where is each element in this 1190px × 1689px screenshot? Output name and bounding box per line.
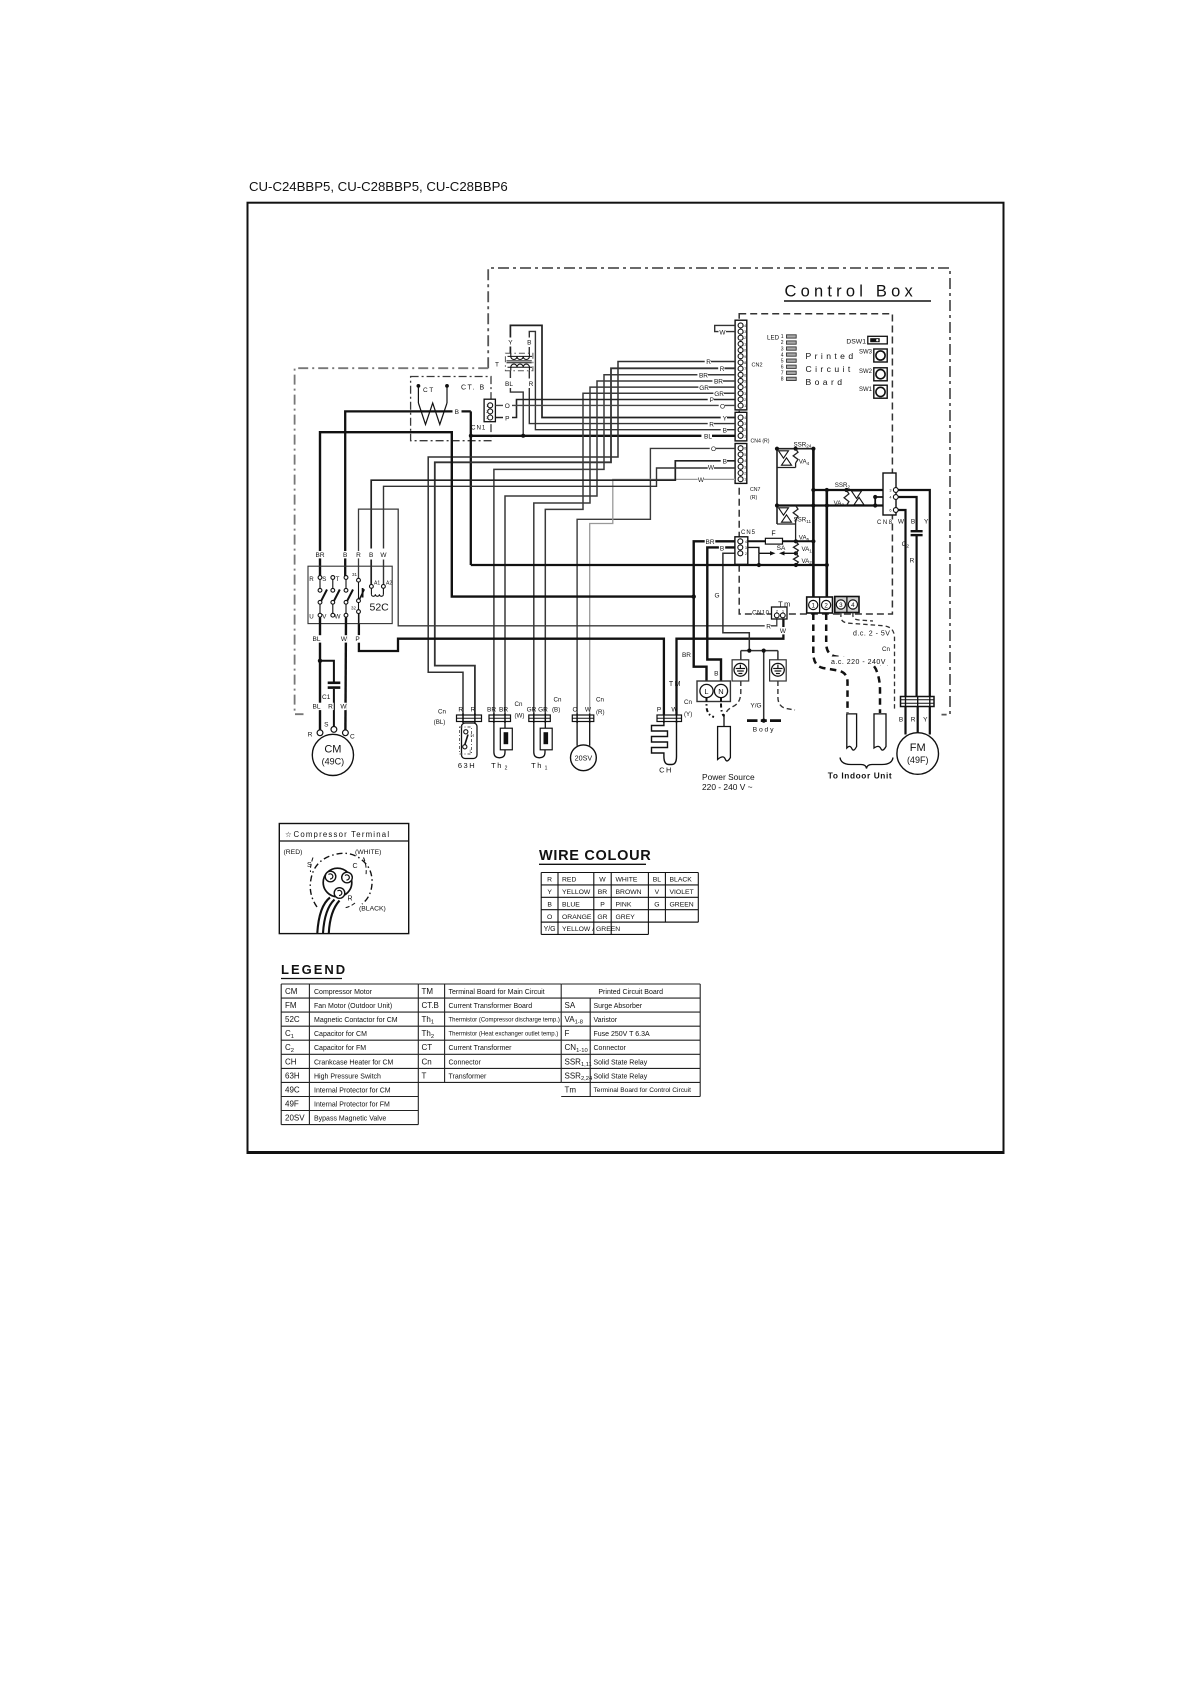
svg-text:B: B — [723, 458, 727, 465]
svg-text:P: P — [505, 415, 509, 422]
wire P from 52C aux bottom to CH — [359, 624, 664, 715]
svg-text:2: 2 — [781, 340, 784, 346]
wire G CN5 pin2 to earth — [723, 553, 778, 719]
svg-text:TM: TM — [422, 987, 434, 996]
svg-text:32: 32 — [351, 606, 357, 611]
svg-text:CT: CT — [422, 1043, 433, 1052]
svg-text:Cn: Cn — [515, 701, 523, 708]
varistor VA2 — [794, 553, 799, 565]
svg-text:8: 8 — [781, 377, 784, 383]
Printed Circuit Board label — [806, 351, 857, 387]
connector Cn(B) bar of Th1 — [529, 715, 551, 722]
svg-text:W: W — [898, 519, 905, 526]
svg-text:Cn: Cn — [438, 709, 446, 716]
indoor cable 1 — [847, 714, 857, 750]
svg-text:To Indoor Unit: To Indoor Unit — [828, 771, 892, 781]
wire SSR11 bottom — [777, 523, 796, 525]
svg-text:BL: BL — [704, 434, 712, 441]
current transformer CT — [417, 384, 449, 425]
svg-text:L: L — [704, 687, 708, 696]
svg-text:S: S — [324, 722, 329, 729]
svg-text:Transformer: Transformer — [449, 1073, 488, 1080]
svg-text:Printed Circuit Board: Printed Circuit Board — [598, 989, 663, 996]
svg-text:1: 1 — [744, 478, 746, 482]
svg-text:Y: Y — [923, 717, 928, 724]
wire B CN5 pin3 to TM N — [707, 547, 735, 684]
svg-text:BL: BL — [313, 704, 321, 711]
wire BL 52C U to CM R — [319, 617, 321, 730]
svg-text:Y: Y — [924, 519, 929, 526]
svg-text:6: 6 — [889, 509, 891, 513]
varistor VA1 — [794, 541, 799, 553]
connector CN10 — [752, 607, 787, 619]
svg-text:V: V — [655, 889, 660, 896]
svg-text:O: O — [505, 403, 510, 410]
svg-text:R: R — [720, 366, 725, 373]
svg-text:Terminal Board for Control Cir: Terminal Board for Control Circuit — [594, 1087, 692, 1094]
wire SSR24 top — [777, 448, 813, 450]
svg-text:Crankcase Heater for CM: Crankcase Heater for CM — [314, 1059, 394, 1066]
svg-text:YELLOW / GREEN: YELLOW / GREEN — [562, 926, 620, 933]
outer border frame — [248, 203, 1004, 1153]
svg-text:C: C — [350, 734, 355, 741]
svg-text:Th: Th — [491, 761, 503, 770]
Control Box dashed boundary — [488, 268, 950, 715]
varistor VA5 — [793, 506, 798, 542]
terminal board TM — [669, 681, 731, 702]
high pressure switch 63H — [458, 723, 477, 770]
svg-text:1: 1 — [744, 404, 746, 408]
svg-text:CN5: CN5 — [741, 530, 756, 536]
svg-text:11: 11 — [742, 342, 746, 346]
svg-text:CT.B: CT.B — [422, 1001, 439, 1010]
svg-text:3: 3 — [486, 416, 488, 420]
connector Cn(W) of FM — [879, 646, 934, 707]
svg-text:WIRE COLOUR: WIRE COLOUR — [539, 848, 651, 864]
surge absorber SA — [748, 545, 796, 556]
magnetic contactor 52C — [308, 566, 392, 623]
svg-text:W: W — [341, 636, 348, 643]
svg-text:O: O — [711, 446, 716, 453]
LED indicator block — [767, 334, 796, 382]
wire SSR24 bottom — [777, 467, 796, 469]
svg-text:Varistor: Varistor — [594, 1017, 618, 1024]
connector Cn(R) bar of 20SV — [572, 715, 594, 722]
52C pole R-U — [309, 576, 327, 621]
svg-text:(WHITE): (WHITE) — [355, 849, 381, 856]
svg-text:6: 6 — [781, 364, 784, 370]
wire GR Th1-right to CN2 pin3 — [545, 393, 735, 715]
svg-text:PINK: PINK — [616, 901, 632, 908]
TM to plug dash-dot wires — [707, 698, 715, 717]
wire SSR2/CN8 pin3 row — [813, 489, 893, 491]
svg-text:6: 6 — [744, 373, 746, 377]
svg-text:Solid State Relay: Solid State Relay — [594, 1059, 648, 1066]
svg-text:W: W — [780, 628, 787, 635]
svg-text:Cn: Cn — [422, 1057, 432, 1066]
svg-text:P: P — [600, 901, 605, 908]
svg-text:P: P — [355, 636, 359, 643]
earth1 to plug dashed wire — [726, 681, 741, 713]
svg-text:20SV: 20SV — [575, 754, 593, 763]
svg-text:(49C): (49C) — [322, 757, 345, 767]
svg-text:R: R — [910, 558, 915, 565]
svg-text:Power Source: Power Source — [702, 772, 755, 782]
power source cable — [702, 714, 755, 792]
push switch SW3 — [859, 349, 887, 362]
svg-text:4: 4 — [745, 540, 747, 544]
svg-text:☆: ☆ — [285, 830, 292, 839]
wire W CN7 pin3 to 52C coil A2 — [384, 468, 736, 585]
varistor VA4 — [793, 449, 798, 468]
svg-text:Cn: Cn — [596, 697, 604, 704]
svg-text:Cn: Cn — [684, 699, 692, 706]
svg-text:CN2: CN2 — [752, 363, 763, 369]
svg-text:N: N — [718, 687, 723, 696]
svg-text:R: R — [547, 877, 552, 884]
svg-text:W: W — [698, 477, 705, 484]
svg-text:Solid State Relay: Solid State Relay — [594, 1073, 648, 1080]
svg-text:BR: BR — [598, 889, 608, 896]
svg-text:49C: 49C — [285, 1085, 300, 1094]
svg-text:2: 2 — [745, 552, 747, 556]
CT.B current transformer board dashed box — [411, 377, 491, 441]
WIRE COLOUR table — [541, 873, 698, 935]
svg-text:CT: CT — [423, 387, 435, 394]
svg-text:C: C — [353, 863, 358, 870]
svg-text:(RED): (RED) — [284, 849, 303, 856]
svg-text:Body: Body — [753, 727, 776, 734]
svg-text:BR: BR — [499, 707, 508, 714]
svg-text:CM: CM — [324, 744, 341, 756]
connector Cn(W) bar of Th2 — [489, 715, 511, 722]
svg-text:R: R — [308, 732, 313, 739]
svg-text:Internal Protector for FM: Internal Protector for FM — [314, 1102, 390, 1109]
wire O from CN1 pin1 to CN2 pin1 — [495, 404, 735, 406]
wire B from 52C T-pole through CT — [345, 411, 471, 577]
svg-text:CU-C24BBP5, CU-C28BBP5, CU-C28: CU-C24BBP5, CU-C28BBP5, CU-C28BBP6 — [249, 179, 508, 194]
CN2 pin approach labels — [705, 358, 711, 365]
svg-text:W: W — [380, 552, 387, 559]
svg-text:Board: Board — [806, 377, 846, 387]
bypass magnetic valve 20SV — [571, 722, 597, 771]
svg-text:W: W — [599, 877, 606, 884]
svg-text:B: B — [455, 409, 459, 416]
svg-text:(49F): (49F) — [907, 755, 929, 765]
svg-text:1: 1 — [744, 434, 746, 438]
connector CN8 — [877, 473, 898, 526]
svg-text:20SV: 20SV — [285, 1114, 305, 1123]
svg-text:2: 2 — [744, 472, 746, 476]
svg-text:W: W — [671, 707, 678, 714]
earth symbol 2 — [770, 660, 787, 681]
svg-text:U: U — [309, 614, 313, 621]
wire BR Th2-right to CN2 pin5 — [505, 381, 735, 715]
svg-text:C1: C1 — [322, 694, 331, 701]
svg-text:(W): (W) — [515, 713, 525, 720]
connector Cn(BL) bar of 63H — [457, 715, 482, 722]
svg-text:LEGEND: LEGEND — [281, 962, 347, 977]
body ground — [747, 719, 781, 734]
capacitor C2 — [902, 531, 923, 549]
svg-text:CN1: CN1 — [471, 425, 486, 432]
connector CN7(R) — [735, 444, 760, 502]
svg-text:O: O — [547, 914, 552, 921]
svg-text:7: 7 — [781, 371, 784, 377]
svg-text:ORANGE: ORANGE — [562, 914, 592, 921]
varistor VA8 — [844, 490, 849, 506]
svg-text:R: R — [471, 707, 476, 714]
connector Cn(Y) bar of CH — [657, 715, 682, 722]
svg-text:CN10: CN10 — [752, 611, 770, 617]
svg-text:YELLOW: YELLOW — [562, 889, 591, 896]
bus N (to Tm2) — [825, 490, 828, 597]
svg-text:4: 4 — [744, 386, 746, 390]
push switch SW2 — [859, 368, 887, 381]
svg-text:S: S — [322, 576, 326, 583]
svg-text:4: 4 — [744, 416, 746, 420]
DIP switch DSW1 — [846, 336, 887, 345]
svg-text:W: W — [340, 704, 347, 711]
svg-text:R: R — [709, 421, 714, 428]
svg-text:3: 3 — [744, 465, 746, 469]
svg-text:RED: RED — [562, 877, 576, 884]
svg-text:4: 4 — [851, 602, 855, 609]
wire BL: CT output down to CN4 pin1 and N-bus — [470, 411, 472, 565]
svg-text:BR: BR — [682, 652, 691, 659]
svg-text:GREEN: GREEN — [670, 901, 694, 908]
d.c. dashed wire from Tm3 — [841, 613, 895, 711]
svg-text:B: B — [714, 671, 718, 678]
svg-text:R: R — [458, 707, 463, 714]
fuse F — [748, 531, 814, 545]
svg-text:Y: Y — [508, 340, 513, 347]
svg-text:W: W — [708, 465, 715, 472]
wire B CN7 pin4 to 52C coil A1 — [371, 461, 735, 585]
52C auxiliary contact 31/32 — [351, 572, 364, 624]
svg-text:GR: GR — [538, 707, 548, 714]
svg-text:5: 5 — [744, 453, 746, 457]
svg-text:SA: SA — [565, 1001, 576, 1010]
CN7 pin approach labels — [710, 445, 716, 452]
svg-text:Control Box: Control Box — [785, 283, 917, 301]
svg-text:52C: 52C — [370, 602, 390, 614]
svg-text:CM: CM — [285, 987, 298, 996]
wire BR CN5 pin4 to TM L — [694, 541, 735, 685]
svg-text:T: T — [336, 576, 340, 583]
svg-text:CT. B: CT. B — [461, 385, 486, 392]
wire W stub at CN2 pin14 — [715, 325, 735, 331]
compressor terminal detail box — [279, 824, 408, 934]
svg-text:CH: CH — [659, 766, 673, 775]
svg-text:2: 2 — [486, 410, 488, 414]
solid state relay SSR11 — [779, 508, 812, 524]
thermistor Th2 — [491, 722, 512, 772]
svg-text:Cn: Cn — [554, 697, 562, 704]
svg-text:SW3: SW3 — [859, 350, 873, 356]
svg-text:1: 1 — [811, 602, 815, 609]
svg-text:LED: LED — [767, 335, 780, 342]
svg-text:G: G — [714, 593, 719, 600]
svg-text:(BL): (BL) — [434, 719, 446, 726]
svg-text:SA: SA — [777, 545, 786, 552]
wire O 20SV-right to CN7 pin6 — [577, 448, 735, 715]
compressor terminal drawing — [284, 849, 386, 933]
svg-text:O: O — [572, 707, 577, 714]
a.c. dashed wire from Tm1 — [813, 614, 847, 714]
svg-text:Connector: Connector — [594, 1045, 627, 1052]
svg-text:Internal Protector for CM: Internal Protector for CM — [314, 1087, 391, 1094]
connector CN1 — [471, 399, 495, 431]
wire Y CN8 pin3 to FM — [898, 490, 930, 697]
svg-text:GR: GR — [699, 385, 709, 392]
svg-text:B: B — [720, 546, 724, 553]
svg-text:B: B — [547, 901, 552, 908]
svg-text:49F: 49F — [285, 1100, 299, 1109]
svg-text:BL: BL — [653, 877, 662, 884]
svg-text:A2: A2 — [386, 581, 392, 587]
svg-text:R: R — [529, 381, 534, 388]
svg-text:BR: BR — [487, 707, 496, 714]
solid state relay SSR2 — [835, 482, 864, 505]
svg-text:BL: BL — [313, 636, 321, 643]
printed circuit board dashed outline — [739, 314, 892, 614]
svg-text:7: 7 — [744, 367, 746, 371]
indoor cable 2 — [874, 714, 886, 750]
wire GR Th1-left to CN2 pin4 — [534, 387, 735, 715]
svg-text:Y/G: Y/G — [750, 703, 761, 710]
svg-text:Connector: Connector — [449, 1059, 482, 1066]
svg-text:BR: BR — [699, 372, 708, 379]
earth2 dashed wire — [778, 681, 795, 710]
a.c. label — [830, 657, 892, 666]
transformer primary wire B to CN4 pin2 — [529, 331, 735, 429]
svg-text:6: 6 — [744, 447, 746, 451]
svg-text:GREY: GREY — [616, 914, 636, 921]
svg-text:d.c. 2 - 5V: d.c. 2 - 5V — [853, 631, 890, 638]
52C pole S-V — [322, 576, 340, 621]
wire P from CN1 pin3 to CN2 pin2 — [495, 400, 735, 418]
svg-text:Thermistor (Heat exchanger out: Thermistor (Heat exchanger outlet temp.) — [449, 1032, 559, 1038]
svg-text:14: 14 — [742, 324, 746, 328]
svg-text:High Pressure Switch: High Pressure Switch — [314, 1073, 381, 1080]
svg-text:Y/G: Y/G — [544, 926, 556, 933]
svg-text:CH: CH — [285, 1057, 297, 1066]
connector CN4(R) — [735, 412, 770, 444]
push switch SW1 — [859, 385, 887, 398]
svg-text:FM: FM — [910, 742, 926, 754]
transformer secondary wire BL — [510, 371, 523, 436]
svg-text:GR: GR — [527, 707, 537, 714]
wire labels below 52C — [312, 635, 323, 642]
wire labels at CM — [311, 703, 322, 710]
wire SSR11 top / CN8 pin6 row — [777, 504, 893, 506]
svg-text:BR: BR — [705, 539, 714, 546]
svg-text:Terminal Board for Main Circui: Terminal Board for Main Circuit — [449, 989, 545, 996]
wire W CN8 pin6 to FM — [898, 510, 905, 697]
svg-text:O: O — [720, 403, 725, 410]
svg-text:2: 2 — [824, 602, 828, 609]
wire R 63H-right to CN2 pin8 — [428, 362, 735, 716]
svg-text:WHITE: WHITE — [616, 877, 638, 884]
svg-text:Circuit: Circuit — [806, 364, 854, 374]
svg-text:R: R — [356, 552, 361, 559]
svg-text:R: R — [309, 576, 314, 583]
svg-text:3: 3 — [744, 422, 746, 426]
crankcase heater CH — [652, 722, 677, 775]
svg-text:220 - 240 V ~: 220 - 240 V ~ — [702, 782, 753, 792]
N-bus wire from CT/BL vertical to bus2 — [471, 564, 827, 566]
wire W 52C W-pole to CM C — [344, 617, 347, 730]
svg-text:R: R — [328, 704, 333, 711]
wire B CN8 pin4 to FM via C2 — [898, 497, 916, 697]
svg-text:VIOLET: VIOLET — [670, 889, 694, 896]
svg-text:Surge Absorber: Surge Absorber — [594, 1003, 643, 1010]
svg-text:3: 3 — [889, 489, 891, 493]
svg-text:Capacitor for CM: Capacitor for CM — [314, 1031, 367, 1038]
svg-text:(B): (B) — [552, 707, 560, 714]
CM motor terminals R S C — [308, 722, 355, 741]
wire SSR left feeder — [776, 449, 778, 524]
earth symbol 1 — [732, 660, 749, 681]
wires Cn(W) to FM motor — [906, 707, 930, 735]
svg-text:R: R — [348, 896, 353, 903]
svg-text:Magnetic Contactor for CM: Magnetic Contactor for CM — [314, 1017, 398, 1024]
svg-text:Thermistor (Compressor dischar: Thermistor (Compressor discharge temp.) — [449, 1018, 560, 1024]
svg-text:Printed: Printed — [806, 351, 857, 361]
svg-text:2: 2 — [505, 766, 508, 772]
svg-text:12: 12 — [742, 336, 746, 340]
fan motor FM (49F) — [897, 733, 939, 775]
wire W 20SV-left to CN7 pin1 — [590, 479, 735, 715]
svg-text:B: B — [723, 428, 727, 435]
svg-text:3: 3 — [744, 392, 746, 396]
legend table — [281, 984, 700, 1125]
svg-text:CN8: CN8 — [877, 520, 894, 526]
svg-text:F: F — [771, 531, 775, 538]
svg-text:2: 2 — [744, 398, 746, 402]
svg-text:A1: A1 — [374, 581, 380, 587]
svg-text:G: G — [654, 901, 659, 908]
svg-text:BLACK: BLACK — [670, 877, 693, 884]
svg-text:Tm: Tm — [565, 1085, 577, 1094]
svg-text:63H: 63H — [458, 761, 476, 770]
svg-text:BL: BL — [505, 381, 513, 388]
svg-text:Capacitor for FM: Capacitor for FM — [314, 1045, 366, 1052]
svg-text:4: 4 — [889, 496, 891, 500]
terminal board Tm — [778, 597, 859, 614]
svg-text:CN4 (R): CN4 (R) — [751, 439, 770, 445]
svg-text:B: B — [527, 340, 531, 347]
svg-text:SW1: SW1 — [859, 387, 873, 393]
svg-text:W: W — [585, 707, 592, 714]
svg-text:(R): (R) — [596, 709, 605, 716]
bus L (to Tm1) — [812, 449, 815, 598]
svg-text:CN7: CN7 — [750, 487, 760, 493]
d.c. dashed wire from Tm4 — [853, 613, 873, 622]
svg-text:T: T — [495, 362, 499, 369]
transformer secondary wire R to CN4 pin3 — [529, 371, 735, 424]
svg-text:DSW1: DSW1 — [846, 339, 866, 346]
svg-text:W: W — [335, 614, 341, 621]
svg-text:SW2: SW2 — [859, 369, 873, 375]
wire W from CH to CN10 — [677, 618, 784, 715]
svg-text:R: R — [766, 624, 771, 631]
svg-text:Y: Y — [723, 415, 728, 422]
svg-text:4: 4 — [781, 352, 784, 358]
svg-text:BLUE: BLUE — [562, 901, 580, 908]
svg-text:4: 4 — [744, 459, 746, 463]
